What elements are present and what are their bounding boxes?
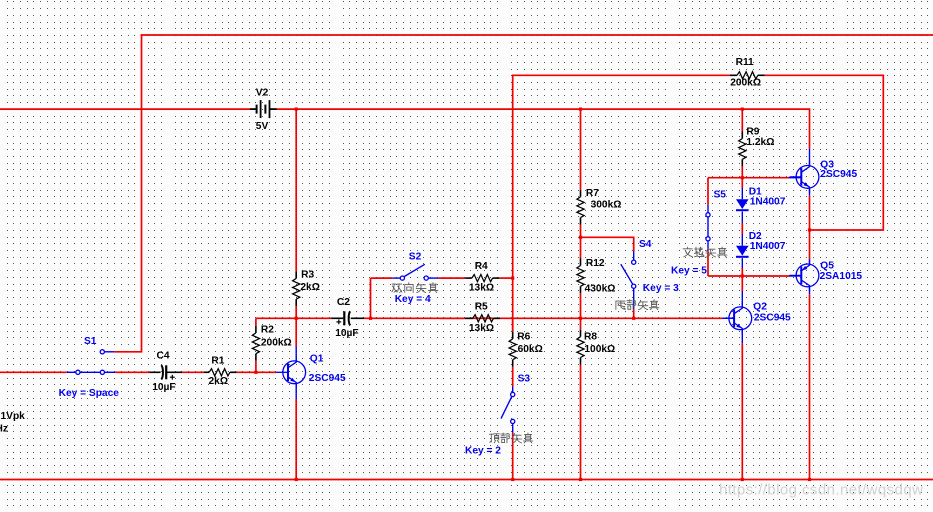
resistor R6	[509, 332, 516, 367]
capacitor C4	[149, 365, 182, 379]
wire R3 top feed	[295, 109, 297, 271]
wire S3 to ground rail	[512, 433, 514, 480]
svg-text:R8: R8	[584, 332, 597, 343]
wire S1 to C4	[115, 371, 149, 373]
label Q3	[820, 159, 834, 170]
label R3	[301, 270, 314, 281]
svg-text:Key = 2: Key = 2	[465, 446, 501, 457]
wire top rail	[141, 34, 933, 36]
label R6	[517, 332, 530, 343]
svg-text:R7: R7	[586, 188, 599, 199]
resistor R1	[204, 369, 237, 376]
svg-text:2SC945: 2SC945	[820, 169, 857, 180]
svg-text:Key = Space: Key = Space	[59, 388, 120, 399]
label S4 caption 底部失真	[616, 300, 659, 310]
wire Q3 emitter to output node	[809, 195, 811, 259]
label S5 key	[671, 266, 707, 277]
label R5 value	[469, 323, 494, 334]
wire R6 to S3	[512, 367, 514, 387]
label S4 key	[643, 283, 679, 294]
label D1 value	[750, 197, 786, 208]
wire S5 bottom stub	[707, 241, 709, 251]
node R8-R12 junction	[579, 317, 582, 320]
svg-text:10µF: 10µF	[335, 328, 358, 339]
label R9 value	[746, 137, 774, 148]
label S4	[639, 239, 652, 250]
wire Q5 emitter stub	[809, 259, 811, 264]
resistor R5	[465, 315, 500, 322]
wire S3 top stub	[512, 387, 514, 393]
node R3 top on 5V rail	[295, 108, 298, 111]
svg-text:1Vpk: 1Vpk	[1, 411, 26, 422]
wire R9 bottom lead	[741, 166, 743, 177]
node crossover junction	[741, 274, 744, 277]
wire Q5 base line	[708, 275, 790, 277]
label R3 value	[300, 282, 320, 293]
label S5	[714, 190, 727, 201]
svg-text:https://blog.csdn.net/wqsdqw: https://blog.csdn.net/wqsdqw	[719, 482, 923, 499]
node R9 top on 5V rail	[741, 108, 744, 111]
wire collector node to C2	[256, 317, 331, 319]
switch S2 (Key=4, open)	[392, 264, 438, 280]
wire S5 bottom riser	[707, 251, 709, 276]
svg-text:R1: R1	[211, 356, 224, 367]
label D2	[749, 231, 762, 242]
svg-text:1N4007: 1N4007	[750, 197, 786, 208]
wire D1 anode lead	[741, 178, 743, 188]
wire S5 closed blade	[707, 217, 709, 237]
label R7	[586, 188, 599, 199]
wire D1-D2 link upper	[741, 212, 743, 224]
svg-text:1.2kΩ: 1.2kΩ	[746, 137, 774, 148]
wire R9 top feed	[741, 109, 743, 131]
wire R4 to R11 riser	[499, 277, 513, 279]
watermark	[719, 482, 923, 499]
label S3 key	[465, 446, 501, 457]
wire Q2 collector stub	[741, 291, 743, 307]
svg-text:13kΩ: 13kΩ	[469, 282, 494, 293]
resistor R7	[577, 190, 584, 225]
label S5 caption 交越失真	[683, 247, 727, 257]
wire Q3 collector stub	[809, 148, 811, 166]
svg-text:2SC945: 2SC945	[309, 373, 346, 384]
diode D1 1N4007	[736, 199, 749, 210]
label R12	[586, 258, 605, 269]
svg-text:R6: R6	[517, 332, 530, 343]
wire S2 branch riser	[370, 278, 372, 318]
wire R12 to base rail	[580, 293, 582, 318]
label R9	[746, 127, 759, 138]
wire R2 top lead	[255, 318, 257, 326]
label C4	[157, 351, 170, 362]
label R1	[211, 356, 224, 367]
wire R6 top lead	[512, 318, 514, 332]
wire S4 top lead	[633, 237, 635, 251]
wire R2 bottom lead	[255, 361, 257, 373]
wire Q3 base line	[708, 177, 790, 179]
svg-text:S2: S2	[409, 251, 422, 262]
wire C2 to Q2 base rail	[364, 317, 722, 319]
node Q5 collector ground	[808, 478, 811, 481]
svg-text:R4: R4	[475, 261, 488, 272]
wire Q5 base stub	[789, 275, 802, 277]
wire Q1 collector stub	[295, 347, 297, 362]
resistor R9	[739, 132, 746, 167]
svg-text:V2: V2	[256, 87, 269, 98]
svg-text:S4: S4	[639, 239, 652, 250]
resistor R2	[252, 326, 259, 361]
svg-text:100kΩ: 100kΩ	[584, 344, 615, 355]
svg-text:C4: C4	[157, 351, 170, 362]
wire R11 output riser	[882, 75, 884, 231]
svg-text:10µF: 10µF	[152, 382, 175, 393]
svg-text:Key = 5: Key = 5	[671, 266, 707, 277]
label C4 value	[152, 382, 175, 393]
label V2	[256, 87, 269, 98]
wire S5 top riser	[707, 178, 709, 205]
svg-text:430kΩ: 430kΩ	[585, 284, 616, 295]
svg-text:13kΩ: 13kΩ	[469, 323, 494, 334]
wire ground rail	[0, 479, 933, 481]
label R2 value	[261, 337, 292, 348]
svg-text:200kΩ: 200kΩ	[261, 337, 292, 348]
label S2 key	[395, 294, 431, 305]
svg-text:Q2: Q2	[753, 302, 767, 313]
diode D2 1N4007	[736, 246, 749, 257]
switch S4 (Key=3, open)	[621, 260, 636, 288]
wire D2 anode stub	[741, 234, 743, 246]
wire Q5 collector stub	[809, 287, 811, 295]
label R8	[584, 332, 597, 343]
node S4 bottom junction	[632, 317, 635, 320]
svg-text:S3: S3	[518, 374, 531, 385]
label D1	[749, 187, 762, 198]
label R11	[736, 57, 754, 68]
label R12 value	[585, 284, 616, 295]
wire S4 branch horizontal	[581, 236, 635, 238]
svg-text:S5: S5	[714, 190, 727, 201]
wire R11 line left	[513, 74, 730, 76]
label S1	[84, 336, 97, 347]
label V1 amplitude 1Vpk	[1, 411, 26, 422]
wire R8 to ground rail	[580, 365, 582, 480]
svg-text:2kΩ: 2kΩ	[209, 376, 229, 387]
label Q3 type	[820, 169, 857, 180]
label R11 value	[730, 77, 761, 88]
wire to S2	[371, 277, 393, 279]
svg-text:2SA1015: 2SA1015	[820, 271, 863, 282]
node output junction	[808, 228, 811, 231]
svg-text:C2: C2	[337, 297, 350, 308]
wire base line from source (left)	[0, 371, 67, 373]
wire Q1 emitter to ground rail	[295, 399, 297, 480]
svg-text:2SC945: 2SC945	[754, 313, 791, 324]
wire S4 bottom to base rail	[633, 309, 635, 318]
wire output line	[810, 229, 884, 231]
wire C4 to R1	[182, 371, 204, 373]
switch S5 (Key=5, closed)	[706, 213, 710, 241]
label R2	[261, 325, 274, 336]
wire D1-D2 link	[741, 223, 743, 234]
label C2	[337, 297, 350, 308]
label R5	[475, 301, 488, 312]
node Q3 base junction	[741, 176, 744, 179]
wire Q2 emitter to ground rail	[741, 343, 743, 479]
svg-text:Hz: Hz	[0, 423, 8, 434]
wire R5 left lead in	[440, 317, 465, 319]
svg-text:Key = 4: Key = 4	[395, 294, 431, 305]
label S1 key	[59, 388, 120, 399]
capacitor C2	[331, 311, 364, 325]
node S3 ground	[511, 478, 514, 481]
svg-text:R3: R3	[301, 270, 314, 281]
resistor R3	[293, 271, 300, 306]
wire 5V rail right of V2	[277, 108, 810, 110]
svg-text:Q1: Q1	[310, 354, 324, 365]
label Q2 type	[754, 313, 791, 324]
wire R11 left riser	[512, 75, 514, 332]
label S3	[518, 374, 531, 385]
svg-text:300kΩ: 300kΩ	[591, 199, 622, 210]
svg-text:60kΩ: 60kΩ	[518, 344, 543, 355]
label Q2	[753, 302, 767, 313]
svg-text:200kΩ: 200kΩ	[730, 77, 761, 88]
node R4-R11 junction	[511, 277, 514, 280]
wire R1 to Q1 base	[237, 371, 277, 373]
wire 5V rail left	[0, 108, 250, 110]
resistor R8	[577, 330, 584, 365]
transistor Q3 2SC945	[790, 161, 819, 193]
wire R3 bottom to collector node	[295, 306, 297, 318]
label Q5 type	[820, 271, 863, 282]
node R7 top on 5V rail	[579, 108, 582, 111]
label S2 caption 双向失真	[392, 283, 438, 293]
node Q1 emitter ground	[295, 478, 298, 481]
wire S1 upper throw lead	[114, 351, 142, 353]
switch S1 (SPDT, Key=Space)	[67, 350, 115, 375]
label R1 value	[209, 376, 229, 387]
wire D2 cathode stub	[741, 258, 743, 268]
label V1 frequency Hz	[0, 423, 8, 434]
node Q2 emitter ground	[741, 478, 744, 481]
svg-text:R12: R12	[586, 258, 605, 269]
svg-text:S1: S1	[84, 336, 97, 347]
wire R11 line right	[765, 74, 884, 76]
svg-text:Key = 3: Key = 3	[643, 283, 679, 294]
wire Q3 base stub	[789, 177, 802, 179]
node collector-R3 junction	[295, 317, 298, 320]
resistor R12	[577, 259, 584, 294]
label R6 value	[518, 344, 543, 355]
wire Q2 base stub	[722, 317, 734, 319]
wire S4 top stub	[633, 252, 635, 261]
svg-text:5V: 5V	[256, 121, 269, 132]
label R8 value	[584, 344, 615, 355]
label S3 caption 顶部失真	[490, 433, 533, 443]
label Q5	[820, 261, 834, 272]
label R7 value	[591, 199, 622, 210]
switch S3 (Key=2, open)	[501, 392, 515, 423]
svg-text:R9: R9	[746, 127, 759, 138]
wire S2 to R4	[438, 277, 465, 279]
wire 5V to Q3 collector	[809, 109, 811, 148]
wire S3 bottom stub	[512, 423, 514, 433]
svg-text:1N4007: 1N4007	[750, 241, 786, 252]
node S4 branch junction	[579, 236, 582, 239]
label Q1 type	[309, 373, 346, 384]
transistor Q1 2SC945	[276, 356, 305, 388]
wire D2 to crossover node	[741, 268, 743, 276]
wire R8 top lead	[580, 318, 582, 329]
wire R7 top feed	[580, 109, 582, 190]
wire D1 anode stub	[741, 188, 743, 199]
label S2	[409, 251, 422, 262]
label D2 value	[750, 241, 786, 252]
label R4	[475, 261, 488, 272]
wire Q1 collector node down	[295, 318, 297, 346]
node R8 ground	[579, 478, 582, 481]
transistor Q5 2SA1015	[790, 259, 819, 291]
node S2 riser junction	[369, 317, 372, 320]
svg-text:R11: R11	[736, 57, 754, 68]
label R4 value	[469, 282, 494, 293]
wire Q3 emitter stub	[809, 188, 811, 195]
wire Q5 collector to ground rail	[809, 294, 811, 479]
resistor R4	[465, 275, 499, 282]
label V2 value 5V	[256, 121, 269, 132]
wire S1 upper throw to top rail (vertical)	[141, 34, 143, 352]
transistor Q2 2SC945	[722, 302, 751, 334]
wire crossover node to Q2 collector	[741, 276, 743, 291]
svg-text:R5: R5	[475, 301, 488, 312]
wire Q2 emitter stub	[741, 329, 743, 343]
svg-text:2kΩ: 2kΩ	[300, 282, 320, 293]
label C2 value	[335, 328, 358, 339]
svg-text:R2: R2	[261, 325, 274, 336]
wire S5 top stub	[707, 205, 709, 213]
wire R7 to R12	[580, 225, 582, 259]
wire S4 bottom stub	[633, 288, 635, 309]
battery V2	[250, 100, 277, 118]
resistor R11	[730, 72, 765, 79]
label Q1	[310, 354, 324, 365]
wire Q1 emitter stub	[295, 383, 297, 399]
node R2-base junction	[254, 371, 257, 374]
